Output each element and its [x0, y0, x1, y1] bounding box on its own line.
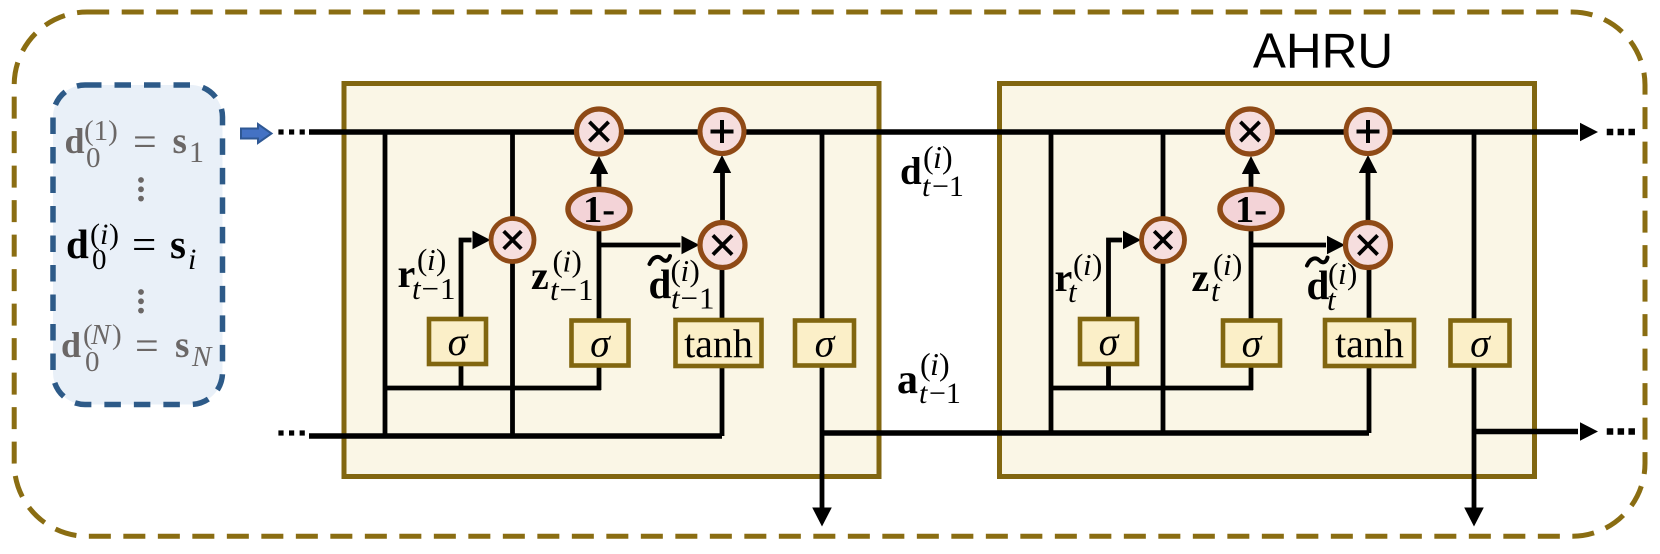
tanh box [676, 320, 762, 366]
svg-text:t: t [671, 281, 681, 316]
wire: vertical B [1161, 132, 1166, 433]
wire: vertical A [383, 132, 388, 436]
wire: r gate line [1109, 240, 1123, 320]
wire: mul to add arrow [720, 172, 725, 222]
svg-text:s: s [173, 121, 187, 162]
arrowhead down output [812, 508, 832, 527]
svg-text:=: = [133, 120, 157, 166]
one-minus ellipse [568, 189, 630, 228]
add node top [1346, 110, 1390, 154]
wire: vertical B [510, 132, 515, 436]
wire: z vertical [1249, 200, 1254, 390]
arrowhead to top mul [590, 156, 608, 174]
wire: one-minus to mul arrow [1249, 172, 1254, 190]
cell 2 box [1000, 84, 1535, 477]
svg-text:z: z [531, 253, 549, 298]
svg-text:d: d [66, 221, 89, 267]
arrowhead bottom right [1580, 422, 1598, 440]
svg-text:i: i [1338, 256, 1347, 291]
sigma box 2 [572, 321, 629, 366]
svg-text:1: 1 [189, 136, 204, 169]
svg-text:a: a [897, 357, 918, 403]
wire: top d line [309, 129, 1578, 135]
svg-text:σ: σ [815, 321, 836, 366]
vdots 1 [138, 177, 144, 201]
svg-text:1-: 1- [583, 189, 615, 231]
label r_t [1055, 247, 1103, 309]
wire: sigma out vertical with down arrow [820, 132, 825, 509]
svg-text:d: d [900, 150, 922, 193]
svg-text:s: s [170, 221, 186, 267]
one-minus ellipse [1220, 189, 1282, 228]
svg-text:−1: −1 [932, 170, 964, 203]
svg-text:i: i [1083, 247, 1092, 282]
add node top [700, 110, 744, 154]
svg-text:t: t [550, 272, 560, 307]
svg-text:z: z [1192, 255, 1210, 300]
svg-text:d: d [649, 261, 672, 307]
svg-text:i: i [1223, 247, 1232, 282]
wire: sigma1 stub [459, 362, 464, 390]
blue input arrow [241, 124, 272, 143]
multiply node r [491, 219, 534, 262]
label r_t-1 [398, 242, 457, 306]
wire: a line out of cell 2 [1474, 429, 1578, 435]
arrowhead r gate [1123, 231, 1141, 249]
dots bottom-left [278, 430, 304, 435]
svg-text:d: d [61, 325, 81, 365]
svg-text:t: t [919, 377, 928, 410]
sigma box 3 [795, 321, 854, 366]
arrowhead to add [1359, 155, 1377, 173]
svg-text:t: t [922, 170, 931, 203]
svg-text:σ: σ [1242, 321, 1263, 366]
svg-text:d: d [65, 121, 85, 161]
svg-text:=: = [132, 222, 156, 269]
wire: tanh top vertical [720, 266, 725, 325]
wire: gate feed horizontal [1051, 386, 1253, 391]
wire: z branch to mul [1251, 243, 1326, 248]
wire: a line into cell 1 [309, 433, 722, 439]
svg-text:0: 0 [85, 346, 100, 378]
arrowhead to add [713, 155, 731, 173]
wire: vertical A [1049, 132, 1054, 433]
svg-text:t: t [1211, 273, 1221, 308]
wire: gate feed horizontal [385, 386, 601, 391]
svg-text:−1: −1 [422, 271, 457, 306]
sigma box 1 [429, 319, 486, 364]
arrowhead z branch [682, 236, 700, 254]
wire: sigma1 stub [1106, 362, 1111, 390]
svg-text:σ: σ [1099, 319, 1120, 364]
multiply node r [1142, 219, 1185, 262]
svg-text:−1: −1 [681, 281, 716, 316]
label dtilde_t [1307, 256, 1358, 317]
wire: mul to add arrow [1366, 172, 1371, 222]
svg-text:σ: σ [1470, 321, 1491, 366]
tanh box [1325, 320, 1414, 366]
svg-text:−1: −1 [929, 377, 961, 410]
sigma box 2 [1223, 321, 1280, 366]
dots bottom-right [1607, 428, 1635, 435]
svg-text:σ: σ [590, 321, 611, 366]
multiply node top [577, 109, 622, 154]
multiply node top [1228, 109, 1273, 154]
svg-text:0: 0 [92, 244, 107, 276]
sigma box 3 [1451, 321, 1510, 366]
svg-text:t: t [1068, 274, 1078, 309]
svg-text:t: t [412, 271, 422, 306]
label dtilde_t-1 [649, 253, 716, 316]
svg-text:0: 0 [86, 142, 101, 174]
wire: z branch to mul [599, 243, 681, 248]
svg-text:AHRU: AHRU [1253, 24, 1393, 79]
multiply node dtilde [1346, 223, 1391, 268]
svg-text:1-: 1- [1235, 189, 1267, 231]
svg-text:−1: −1 [560, 272, 595, 307]
wire: tanh top vertical [1367, 266, 1372, 325]
sigma box 1 [1080, 319, 1137, 364]
initial state box [53, 85, 223, 405]
svg-text:i: i [188, 243, 196, 276]
equation d0(i)=si [66, 218, 196, 276]
label z_t-1 [531, 244, 594, 308]
svg-text:t: t [1327, 282, 1337, 317]
arrowhead to top mul [1242, 156, 1260, 174]
wire: one-minus to mul arrow [597, 172, 602, 190]
equation d0(1)=s1 [65, 115, 205, 174]
wire: tanh bottom vertical [720, 362, 725, 436]
arrowhead z branch [1327, 236, 1345, 254]
cell 1 box [344, 84, 879, 477]
dots top-right [1607, 129, 1635, 136]
svg-text:tanh: tanh [684, 321, 753, 366]
svg-text:s: s [175, 325, 189, 366]
svg-text:): ) [1092, 247, 1102, 282]
vdots 2 [138, 289, 144, 313]
label a_t-1 between cells [897, 346, 961, 410]
svg-text:): ) [1347, 256, 1357, 291]
arrowhead down output [1464, 508, 1484, 527]
wire: a line between cells [822, 430, 1369, 436]
label z_t [1192, 247, 1243, 308]
wire: r gate line [461, 240, 472, 320]
arrowhead top right [1580, 123, 1598, 141]
label d_t-1 between cells [900, 139, 964, 203]
wire: z vertical [597, 200, 602, 390]
svg-text:σ: σ [448, 319, 469, 364]
wire: sigma out vertical with down arrow [1472, 132, 1477, 509]
svg-text:): ) [1232, 247, 1242, 282]
svg-text:): ) [109, 218, 119, 251]
wire: tanh bottom vertical [1367, 362, 1372, 433]
svg-text:tanh: tanh [1335, 321, 1404, 366]
multiply node dtilde [700, 223, 745, 268]
svg-text:): ) [112, 319, 122, 351]
dots top-left [278, 129, 304, 134]
arrowhead r gate [473, 231, 491, 249]
svg-text:N: N [191, 341, 213, 373]
svg-text:=: = [135, 324, 159, 370]
equation d0(N)=sN [61, 319, 213, 378]
